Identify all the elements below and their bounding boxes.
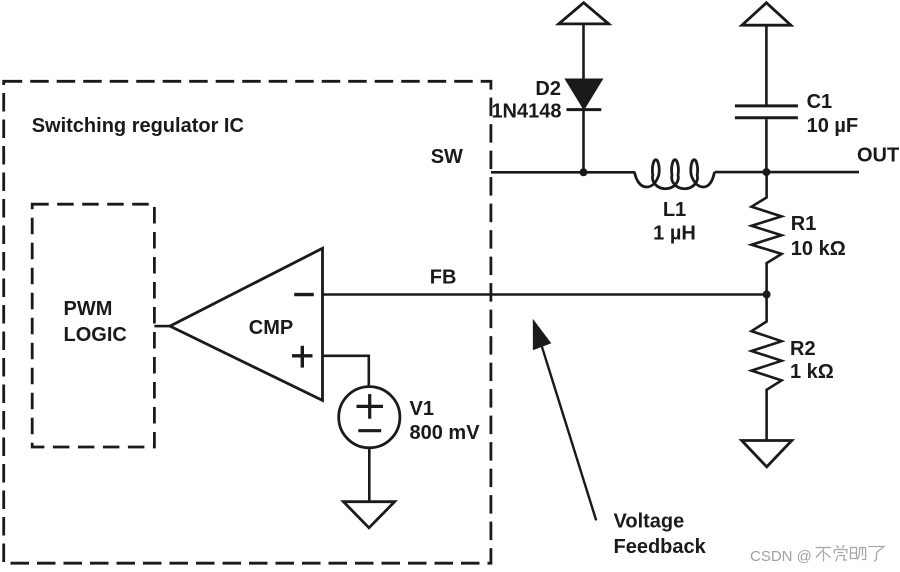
wire OUT net — [715, 171, 860, 174]
supply arrow above C1 — [742, 3, 791, 25]
svg-text:FB: FB — [430, 267, 457, 289]
svg-text:R1: R1 — [791, 213, 817, 235]
junction node OUT/C1/R1 — [762, 168, 770, 176]
junction node FB/R1/R2 — [763, 290, 771, 298]
IC boundary dashed box — [4, 81, 491, 563]
svg-text:LOGIC: LOGIC — [64, 324, 127, 346]
ground under V1 — [343, 502, 394, 528]
svg-text:1 µH: 1 µH — [653, 223, 696, 245]
svg-text:V1: V1 — [410, 398, 434, 420]
V1 plus symbol — [357, 405, 384, 408]
wire V1 to ground — [368, 448, 371, 502]
wire D2 branch — [582, 24, 585, 172]
svg-text:10 kΩ: 10 kΩ — [791, 238, 846, 260]
PWM logic dashed box — [32, 204, 154, 447]
wire op-amp output to PWM box — [154, 325, 170, 328]
V1 minus symbol — [358, 429, 381, 432]
op-amp U1 CMP triangle — [170, 248, 323, 400]
wire C1 branch upper — [765, 25, 768, 104]
wire SW net — [491, 171, 635, 174]
watermark CSDN — [750, 548, 812, 565]
svg-text:C1: C1 — [807, 91, 833, 113]
svg-text:800 mV: 800 mV — [410, 422, 481, 444]
op-amp plus input symbol — [292, 354, 313, 357]
glyph bu — [816, 547, 831, 549]
junction node SW/D2 — [580, 168, 588, 176]
svg-text:Switching regulator IC: Switching regulator IC — [32, 115, 244, 137]
svg-text:Voltage: Voltage — [614, 511, 685, 533]
wire C1 to OUT — [765, 119, 768, 172]
op-amp minus input symbol — [294, 293, 314, 296]
supply arrow above D2 — [559, 3, 609, 24]
resistor R1 — [752, 172, 782, 294]
svg-text:Feedback: Feedback — [614, 536, 707, 558]
wire FB net — [323, 293, 767, 296]
svg-text:SW: SW — [431, 146, 463, 168]
svg-text:OUT: OUT — [857, 145, 899, 167]
wire op-amp plus input to V1 — [323, 356, 369, 387]
watermark CJK glyphs drawn as strokes — [816, 545, 884, 562]
svg-text:PWM: PWM — [64, 298, 113, 320]
inductor L1 coil — [635, 160, 715, 189]
svg-text:D2: D2 — [535, 78, 561, 100]
diode D2 — [567, 80, 602, 109]
svg-text:CSDN @: CSDN @ — [750, 548, 812, 565]
glyph ming — [851, 548, 857, 559]
capacitor C1 — [735, 104, 798, 107]
ground under R2 — [742, 441, 792, 467]
voltage source V1 — [339, 387, 400, 448]
svg-text:10 µF: 10 µF — [807, 115, 859, 137]
glyph le — [868, 547, 884, 553]
svg-text:R2: R2 — [790, 338, 816, 360]
glyph jue — [836, 546, 839, 549]
svg-text:1 kΩ: 1 kΩ — [790, 361, 834, 383]
svg-text:CMP: CMP — [249, 317, 293, 339]
voltage feedback annotation arrow — [542, 346, 596, 520]
svg-text:L1: L1 — [663, 199, 686, 221]
resistor R2 — [752, 294, 782, 440]
svg-text:1N4148: 1N4148 — [491, 101, 561, 123]
